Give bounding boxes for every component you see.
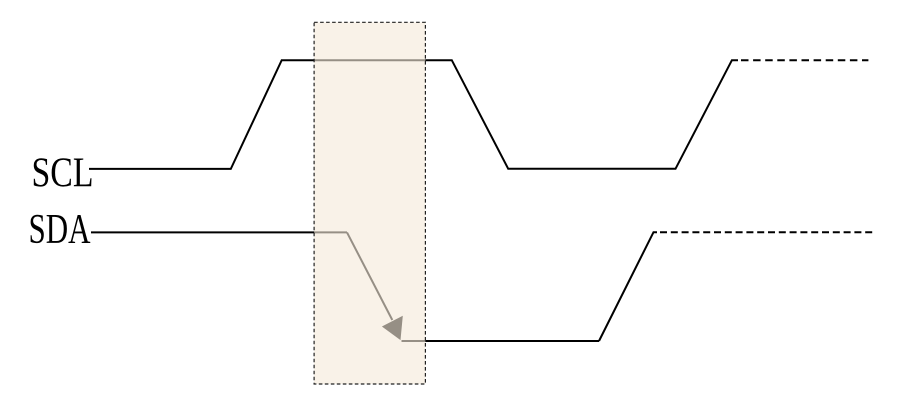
start-condition highlight band (translucent overlay): [314, 22, 425, 384]
SDA falling-edge arrow shaft: [347, 232, 392, 320]
svg-text:SCL: SCL: [32, 150, 94, 196]
SDA dashed continuation: [660, 231, 873, 233]
SDA arrowhead: [382, 316, 403, 340]
SDA lead line: [91, 231, 347, 233]
SDA low segment: [402, 340, 600, 342]
band dashed border: [314, 22, 425, 384]
svg-text:SDA: SDA: [29, 207, 91, 253]
SCL dashed continuation: [741, 59, 868, 61]
SCL waveform solid polyline: [89, 60, 738, 169]
SDA rising edge: [599, 232, 657, 341]
